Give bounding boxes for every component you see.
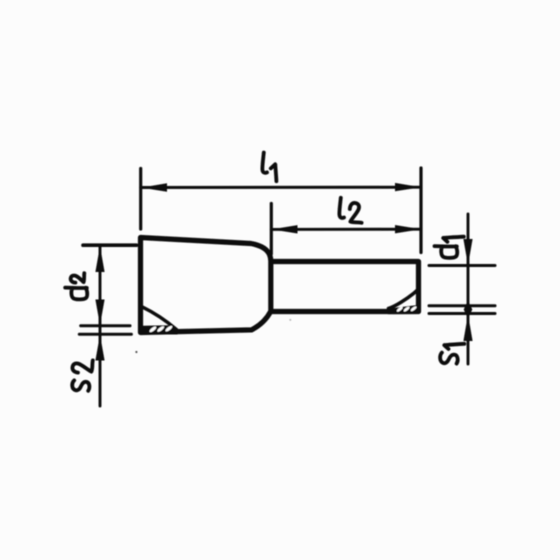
dimension d1 extension line top	[429, 264, 495, 267]
dimension l2 arrow right	[395, 225, 421, 233]
dimension l1 extension line left	[139, 169, 142, 230]
dimension l2 line	[271, 228, 421, 231]
label l1	[262, 153, 276, 182]
dimension l2 arrow left	[272, 225, 298, 233]
dimension l1/l2 extension line right	[419, 168, 422, 253]
dimension l2 extension line left	[270, 204, 273, 255]
tube section chamfer curve	[389, 289, 419, 309]
tube section hatch band	[388, 305, 418, 314]
s1/d1 arrow diamond	[464, 301, 473, 319]
dimension l1 line	[141, 186, 421, 189]
dimension d2/s2 dimension line vertical	[99, 246, 102, 407]
collar section hatch band	[141, 325, 178, 334]
label d2 (rotated)	[65, 273, 87, 299]
label s2 (rotated)	[72, 360, 93, 390]
s1 wall thickness line upper	[429, 304, 495, 307]
dimension d2 extension line top	[83, 243, 137, 247]
label d1 (rotated)	[435, 237, 464, 258]
dimension d2 arrow up	[95, 246, 104, 272]
collar section chamfer line	[142, 307, 177, 330]
dimension l1 arrow left	[141, 183, 167, 191]
scan speck	[135, 351, 137, 353]
dimension s1 arrow up	[463, 315, 472, 342]
ferrule tube outline	[272, 262, 419, 312]
dimension d1/s1 dimension line vertical	[467, 214, 470, 364]
dimension d1 arrow down	[463, 239, 472, 265]
ferrule collar outline	[141, 238, 271, 333]
s2 wall thickness line lower	[79, 333, 131, 336]
tube hatch white slits	[396, 306, 417, 313]
label l2	[339, 198, 361, 223]
dimension s2 arrow up	[95, 335, 104, 361]
s1 wall thickness line lower	[429, 312, 495, 315]
label s1 (rotated)	[440, 344, 464, 364]
dimension d2 arrow down	[95, 300, 104, 326]
collar hatch white slits	[149, 325, 173, 333]
scan speck faint	[289, 319, 291, 321]
s2 wall thickness line upper	[81, 324, 130, 327]
dimension l1 arrow right	[395, 183, 421, 191]
